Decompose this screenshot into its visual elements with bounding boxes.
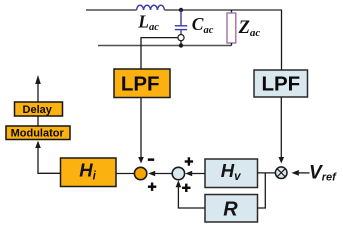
wire H_v to voltage summer with arrowhead (185, 171, 205, 177)
wire capacitor to bottom bus (180, 41, 182, 46)
inductor L_ac (137, 5, 165, 10)
svg-text:LPF: LPF (261, 73, 300, 96)
sense terminal circle (178, 35, 184, 41)
svg-text:Delay: Delay (23, 104, 53, 116)
wire bottom AC bus (98, 45, 232, 47)
node junction bottom of capacitor (179, 43, 183, 47)
label plus sign below current summer (148, 183, 156, 191)
wire right LPF to multiplier with arrowhead (279, 97, 285, 164)
svg-text:R: R (223, 199, 238, 221)
wire top AC bus (86, 9, 282, 11)
label plus sign upper right of voltage summer (185, 157, 193, 165)
capacitor C_ac (175, 10, 187, 34)
wire gray summer to orange summer with arrowhead (148, 171, 172, 177)
wire modulator to delay (37, 116, 39, 126)
block H_i (61, 158, 117, 187)
block H_v (205, 159, 258, 188)
block R (205, 195, 258, 223)
wire R output to voltage summer with arrowhead (176, 180, 205, 208)
svg-text:Modulator: Modulator (11, 128, 65, 140)
label plus sign lower right of voltage summer (182, 184, 190, 192)
impedance Z_ac (227, 10, 236, 46)
block LPF current (orange) (114, 69, 170, 98)
block Delay (15, 102, 63, 116)
wire orange summer to H_i (116, 173, 134, 175)
svg-text:LPF: LPF (121, 72, 160, 95)
summing junction current (orange) (134, 167, 146, 179)
summing junction voltage (gray) (172, 167, 184, 179)
block Modulator (6, 126, 70, 140)
wire delay output arrow (35, 75, 41, 102)
wire right drop to right LPF (281, 10, 283, 70)
multiplier cross circle (275, 167, 287, 179)
node junction top of capacitor (179, 8, 183, 12)
wire V_ref input with arrowhead (292, 170, 310, 176)
block LPF voltage (blue) (254, 70, 308, 97)
wire sense tap to left LPF (141, 38, 178, 69)
wire left LPF to summer with arrowhead (138, 98, 144, 164)
wire H_i to modulator with arrowhead (35, 141, 60, 174)
wire multiplier to H_v with branch to R (258, 173, 276, 208)
label minus sign (148, 158, 154, 161)
